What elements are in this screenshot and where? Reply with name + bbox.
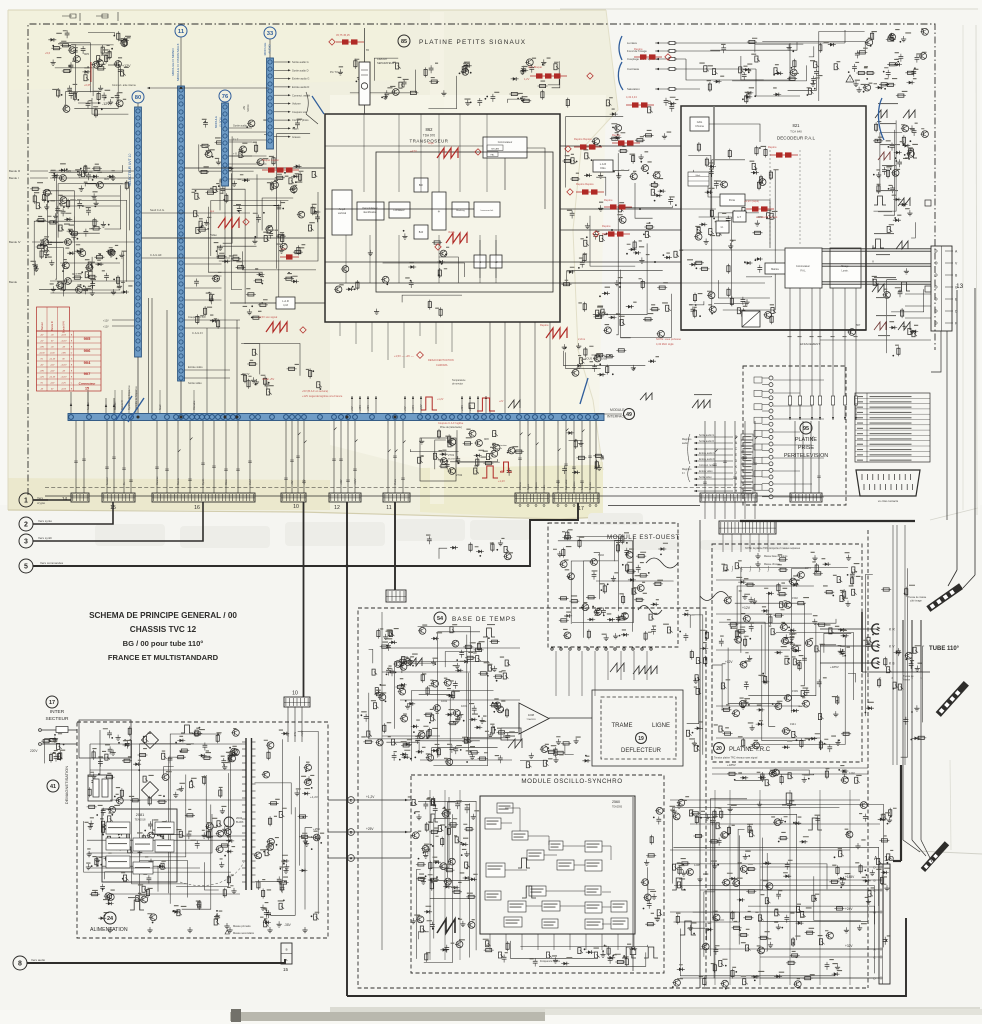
transistor 901 <box>65 239 72 246</box>
svg-text:crypto: crypto <box>37 501 46 505</box>
svg-text:Sortie audio D: Sortie audio D <box>292 68 309 72</box>
red block small left <box>280 256 299 258</box>
svg-text:NOTE: la platine TRC comporte: NOTE: la platine TRC comporte 2 masses s… <box>745 547 801 550</box>
transposeur internal block +2 <box>490 255 502 268</box>
svg-text:1208: 1208 <box>694 863 700 867</box>
blue mark near module audio <box>312 96 324 114</box>
svg-text:+0,5V: +0,5V <box>61 334 67 336</box>
base de temps transistors <box>434 705 441 712</box>
svg-text:Ligne: Ligne <box>741 566 743 572</box>
deflection yoke hatched bar bottom <box>936 681 969 717</box>
svg-text:Commut. lente: Commut. lente <box>699 464 715 467</box>
svg-text:BC158: BC158 <box>448 459 455 461</box>
svg-text:MODULE FI VISION MULT.: MODULE FI VISION MULT. <box>176 43 180 81</box>
LAR 4.43 filter box <box>276 297 295 309</box>
red chain decoder input 1 <box>574 146 602 148</box>
horizontal wire rows alimentation <box>90 743 246 745</box>
blue connector strip module 80 selecteur UVT <box>135 107 142 357</box>
svg-text:904: 904 <box>84 360 91 365</box>
trame ligne deflecteur outer box <box>592 690 683 766</box>
decoder block modulation de service <box>688 172 709 186</box>
svg-text:TDA 970: TDA 970 <box>423 134 436 138</box>
svg-text:+24V: +24V <box>412 405 415 411</box>
svg-text:SECAM: SECAM <box>491 148 499 151</box>
svg-text:+33V: +33V <box>39 346 44 348</box>
wires into output connector <box>760 866 879 868</box>
svg-text:FRANCE ET MULTISTANDARD: FRANCE ET MULTISTANDARD <box>108 653 219 662</box>
svg-text:Accord: Accord <box>87 402 90 410</box>
svg-text:+12V Légende légitime à la Fr: +12V Légende légitime à la France <box>302 394 343 398</box>
svg-text:L.A.R: L.A.R <box>282 299 289 303</box>
oscillo synchro dashed box <box>411 775 664 973</box>
svg-text:15: 15 <box>85 387 89 391</box>
svg-text:1001: 1001 <box>402 655 409 659</box>
svg-text:-38V: -38V <box>284 923 292 927</box>
connector right aux <box>790 493 822 502</box>
svg-text:+0,65: +0,65 <box>84 83 91 87</box>
wire circled 33 to strip <box>269 40 271 59</box>
svg-text:LIGNE: LIGNE <box>652 723 670 729</box>
wire transposer mid bus <box>325 261 560 263</box>
svg-text:2701: 2701 <box>448 453 455 457</box>
svg-text:Coupure C.A.F: Coupure C.A.F <box>188 315 206 319</box>
svg-text:Vers commandes: Vers commandes <box>40 561 64 565</box>
junction dots interface bar <box>137 416 140 419</box>
alimentation dashed module box <box>77 722 328 938</box>
transposer inner IC boundary <box>376 152 553 292</box>
svg-text:4,43 4,43: 4,43 4,43 <box>626 95 637 99</box>
svg-text:8: 8 <box>18 961 22 968</box>
svg-text:1502: 1502 <box>792 596 798 600</box>
wires TRC bottom verticals <box>892 525 894 765</box>
svg-text:2: 2 <box>24 522 28 529</box>
wire effacement to connector <box>820 339 931 341</box>
svg-text:Commutateur: Commutateur <box>498 141 513 144</box>
connector 17 left half <box>515 493 549 503</box>
decoder internal dashed verticals <box>769 150 771 246</box>
svg-text:Connecteur: Connecteur <box>79 382 97 386</box>
svg-text:Entrée audio G: Entrée audio G <box>292 77 309 81</box>
misc components region: below bar right cluster <box>562 431 604 474</box>
horizontal wires left area mid <box>60 195 120 197</box>
decoder block CAG chroma <box>690 117 709 131</box>
svg-text:CHASSIS TVC 12: CHASSIS TVC 12 <box>130 625 197 634</box>
connector 15 bottom <box>281 943 292 964</box>
svg-text:Trame: Trame <box>749 565 752 572</box>
tall output connector strip <box>879 864 890 984</box>
waveform left of peritel <box>640 393 652 400</box>
misc components region: circuit separateur surroundings <box>424 58 560 109</box>
wires TRC to CRT guns <box>820 628 878 630</box>
svg-text:A: A <box>873 948 875 952</box>
est-ouest parabola waveforms <box>646 558 678 568</box>
est-ouest module dashed box <box>548 523 678 647</box>
red sawtooth below <box>446 233 467 243</box>
svg-text:2002: 2002 <box>236 816 243 820</box>
connector top of base de temps <box>386 590 406 602</box>
connector 12 top <box>329 493 361 502</box>
svg-text:Repère: Repère <box>768 145 777 149</box>
red cluster right of decoder top <box>770 154 798 156</box>
svg-text:+185V: +185V <box>727 763 736 767</box>
svg-text:11: 11 <box>178 29 185 35</box>
circled 11 module number <box>175 25 187 37</box>
wire transposer lower bus <box>325 282 560 284</box>
horizontal wires tuner to selector strip <box>50 170 134 172</box>
wire opamp output to trame box <box>549 717 592 719</box>
svg-text:K B: K B <box>889 662 895 666</box>
misc components region: top-right control rows components <box>699 28 928 104</box>
svg-text:Entrée audio D: Entrée audio D <box>292 85 309 89</box>
misc components region: oscillo-synchro bottom components <box>483 939 648 967</box>
svg-text:+12V: +12V <box>103 326 109 329</box>
svg-text:Masse base de temps: Masse base de temps <box>764 555 788 558</box>
misc components region: above interface bar <box>241 344 322 396</box>
svg-text:80: 80 <box>135 95 141 101</box>
svg-text:Commutateur: Commutateur <box>796 265 810 268</box>
red chain lower decoder left <box>602 233 630 235</box>
mains input terminals <box>39 729 42 732</box>
svg-text:24: 24 <box>107 916 114 922</box>
vertical sync opamp 1008 <box>519 703 549 734</box>
svg-text:907: 907 <box>84 371 91 376</box>
junction dots on link wires <box>599 145 601 147</box>
svg-text:-24V: -24V <box>294 732 297 737</box>
svg-text:Vidéo: Vidéo <box>394 478 397 485</box>
misc components region: below TRC supply lines <box>727 765 862 786</box>
svg-text:CIRCUIT: CIRCUIT <box>377 57 388 61</box>
svg-text:MODULE FI MONO: MODULE FI MONO <box>171 48 175 76</box>
supply lines below TRC <box>712 767 868 769</box>
circled 8 vers audio <box>13 956 27 970</box>
transposeur internal block B-R <box>414 225 428 239</box>
misc components region: platine TRC components <box>714 552 861 752</box>
wire entree video row <box>185 369 231 371</box>
ground symbols row alimentation <box>109 927 111 930</box>
wire from circle 5 to connector 17 <box>33 503 578 566</box>
svg-text:L.A.R: L.A.R <box>600 162 607 166</box>
svg-text:MODULE: MODULE <box>214 116 218 128</box>
svg-text:MODULE EST-OUEST: MODULE EST-OUEST <box>607 534 680 541</box>
extra rows between strips 11 and 76 <box>185 263 222 265</box>
svg-text:+5V: +5V <box>404 406 407 411</box>
svg-text:Sortie audio G: Sortie audio G <box>292 60 309 64</box>
svg-text:TUBE 110°: TUBE 110° <box>929 646 960 652</box>
svg-text:1002: 1002 <box>441 699 448 703</box>
wire CAG HF <box>142 257 231 259</box>
circled 5 vers commandes <box>19 559 33 573</box>
svg-text:INTER: INTER <box>50 709 65 715</box>
svg-text:Sortie audio G: Sortie audio G <box>699 434 714 437</box>
svg-text:901: 901 <box>72 233 77 237</box>
svg-text:33: 33 <box>267 31 274 37</box>
svg-text:906: 906 <box>104 177 109 181</box>
misc components region: transposer internals spare <box>334 230 465 317</box>
svg-text:C.A.G FI: C.A.G FI <box>192 331 203 335</box>
scart connector drawing <box>856 470 920 496</box>
svg-text:CAG: CAG <box>697 120 703 124</box>
svg-text:Filtre: Filtre <box>600 167 606 170</box>
warning triangle top right <box>846 75 854 82</box>
svg-text:Saturation: Saturation <box>627 87 640 91</box>
svg-text:TRAME: TRAME <box>612 723 633 729</box>
svg-text:Pin TV: Pin TV <box>242 373 250 376</box>
thick vertical wire TRC to output connector <box>900 765 902 861</box>
svg-text:PRISE: PRISE <box>798 445 815 451</box>
svg-text:TDA2593: TDA2593 <box>612 806 623 809</box>
waveform pulses base de temps +30V <box>483 628 495 637</box>
wires mains to degauss <box>89 744 91 775</box>
decoder block chroma demod diagonal <box>742 311 760 327</box>
wire from circle 2 to connector 15 <box>33 502 113 524</box>
extra rows between strips 76 and 33 <box>229 131 267 133</box>
trame ligne deflecteur dashed box <box>601 697 676 759</box>
peritel connector ring strip <box>769 376 773 380</box>
misc components region: module est-ouest components <box>553 529 673 641</box>
deflection yoke hatched bar top <box>926 583 963 612</box>
svg-text:+12V: +12V <box>122 64 131 68</box>
svg-text:TDA2593: TDA2593 <box>526 718 536 721</box>
decoder block mixing luminance <box>830 248 861 288</box>
waveform cluster right margin 1 <box>875 110 887 118</box>
svg-text:1501: 1501 <box>805 566 811 570</box>
svg-text:Graves: Graves <box>292 135 301 139</box>
waveform cluster below decoder <box>692 400 710 408</box>
svg-text:4,43 MHz réglé: 4,43 MHz réglé <box>656 342 674 346</box>
wires right margin verticals from connector 13 <box>956 290 958 570</box>
wire from circle 3 to connector 16 <box>33 502 203 541</box>
svg-text:905: 905 <box>84 336 91 341</box>
misc components region: bottom-right output stage <box>670 796 897 989</box>
svg-text:AUDIO: AUDIO <box>268 44 272 54</box>
misc components region: inter secteur wiring <box>41 733 65 763</box>
svg-text:Entrée audio G: Entrée audio G <box>699 452 715 455</box>
wire strip11 to transposer video <box>185 167 326 169</box>
dash-dot outer border of platine petits signaux <box>28 24 935 495</box>
svg-text:Id.: Id. <box>721 226 724 229</box>
svg-text:DEMAGNETISATION: DEMAGNETISATION <box>64 766 69 804</box>
svg-text:FILTRE: FILTRE <box>592 353 601 357</box>
svg-text:Bande III: Bande III <box>51 321 54 331</box>
svg-text:+5V: +5V <box>291 480 294 485</box>
svg-text:Repère: Repère <box>602 224 611 228</box>
circled 2 vers synto <box>19 517 33 531</box>
svg-text:Magnéto: Magnéto <box>682 468 692 471</box>
svg-text:+32V: +32V <box>340 479 343 485</box>
svg-text:Aigus: Aigus <box>292 127 299 131</box>
circled 33 module number <box>264 27 276 39</box>
svg-text:Lumin.: Lumin. <box>842 271 849 273</box>
commutateur secam/pal block <box>483 137 527 158</box>
transposeur internal block demodulateur identification <box>357 202 384 220</box>
svg-text:Bande III: Bande III <box>9 169 20 173</box>
svg-text:NOTE: sous porteuse: NOTE: sous porteuse <box>656 337 681 341</box>
svg-text:Contraste: Contraste <box>557 479 560 490</box>
svg-text:!: ! <box>849 77 850 82</box>
red pulse in 2701 cluster <box>482 466 498 478</box>
svg-text:C.A.F: C.A.F <box>249 478 252 485</box>
svg-text:J: J <box>735 471 737 475</box>
transistor stage 905/906 top left <box>74 56 81 63</box>
pulse waveforms bottom right <box>782 793 796 805</box>
svg-text:Gamme: Gamme <box>156 476 159 485</box>
red chain upper mid right <box>530 75 567 77</box>
horizontal wire rows inside base de temps <box>382 647 520 649</box>
red chain mid decoder left <box>604 206 632 208</box>
svg-text:+8V: +8V <box>287 732 290 737</box>
IC 2560 outline <box>480 796 635 934</box>
blue connector strip module 11 FI vision <box>178 86 185 381</box>
decoder block identification <box>716 221 729 233</box>
wire sortie video row <box>185 377 231 379</box>
TRC connector rotated labels <box>722 534 724 552</box>
voltage table connecteur 15 <box>37 307 70 331</box>
svg-text:13: 13 <box>956 283 964 290</box>
long solid vertical separator x=700 <box>699 520 701 988</box>
audio outputs fanout right of strip 33 <box>274 61 288 63</box>
svg-text:+3,2V: +3,2V <box>354 478 357 485</box>
svg-text:C.A.G HF: C.A.G HF <box>150 253 162 257</box>
svg-text:G: G <box>735 477 738 481</box>
waveform cluster right margin 2 <box>878 152 890 160</box>
+12V supply label top left <box>108 64 118 66</box>
misc components region: alimentation module components <box>84 726 240 925</box>
svg-text:2560: 2560 <box>612 800 620 804</box>
waveform sawtooth near trame top <box>610 663 624 672</box>
svg-text:Sortie audio D: Sortie audio D <box>699 440 714 443</box>
connector peritel feed <box>700 493 757 502</box>
svg-text:F I T: F I T <box>233 138 239 142</box>
svg-text:Sortie audio: Sortie audio <box>233 124 247 128</box>
module 821 decodeur PAL outline <box>681 106 866 330</box>
degaussing posistor box <box>88 775 112 801</box>
vertical supply wires in bottom right <box>714 790 716 985</box>
power transistor 2002 <box>224 817 234 827</box>
misc components region: top middle upper <box>338 58 419 100</box>
IC 2560 main vertical line <box>632 797 634 947</box>
svg-text:K V: K V <box>889 645 895 649</box>
svg-text:Volume: Volume <box>519 481 522 490</box>
waveform cluster right margin 6 <box>874 322 886 330</box>
svg-text:Vidéo: Vidéo <box>448 230 455 234</box>
connector 14 <box>71 493 89 502</box>
svg-text:+5,2V: +5,2V <box>301 730 304 737</box>
verticals from transposer bottom to bar <box>489 322 491 413</box>
svg-text:Masse secondaire: Masse secondaire <box>233 931 255 935</box>
svg-text:Porte: Porte <box>729 198 736 202</box>
svg-text:Sortie vidéo: Sortie vidéo <box>699 476 712 479</box>
svg-text:Bande IV-V: Bande IV-V <box>63 321 66 333</box>
waveform sawtooth base de temps top left <box>410 658 422 666</box>
svg-text:Ligne: Ligne <box>723 566 725 572</box>
red chain left tuner area <box>262 169 299 171</box>
svg-text:Matrice: Matrice <box>771 268 780 271</box>
svg-text:TCA 640: TCA 640 <box>790 130 802 134</box>
svg-text:TEA2018: TEA2018 <box>135 818 146 822</box>
svg-text:B.+: B.+ <box>123 481 126 485</box>
verticals from strips down to interface bar <box>137 357 139 413</box>
svg-text:MULTI.: MULTI. <box>223 117 227 126</box>
svg-text:Bande I: Bande I <box>9 176 19 180</box>
svg-text:T102: T102 <box>598 553 604 557</box>
transistor 1208 output stage <box>687 869 694 876</box>
misc components region: decoder lower strip <box>689 296 776 324</box>
mains fuse <box>56 727 68 733</box>
transposer box interior light fill <box>326 115 559 321</box>
wire circled 11 to strip <box>180 38 182 87</box>
blue connector strip module 76 FI son <box>222 103 229 186</box>
horizontal wire rows inside TRC <box>716 579 800 581</box>
circled 76 module number <box>219 90 231 102</box>
svg-text:Inverseur fid.: Inverseur fid. <box>481 209 494 212</box>
svg-text:Bande I: Bande I <box>41 322 44 331</box>
svg-text:+11,5V: +11,5V <box>49 376 56 378</box>
svg-text:+12V: +12V <box>50 364 55 366</box>
svg-text:Repère: Repère <box>540 323 549 327</box>
svg-text:+0,5V: +0,5V <box>50 352 56 354</box>
svg-text:Lumière: Lumière <box>573 481 576 490</box>
svg-text:Connect. ante interne: Connect. ante interne <box>112 84 137 87</box>
svg-text:F.I: F.I <box>682 472 685 475</box>
svg-text:+1,2V: +1,2V <box>366 795 375 799</box>
svg-text:Bande: Bande <box>177 477 180 485</box>
svg-text:76: 76 <box>222 94 229 100</box>
misc components region: bottom mid between sections <box>426 535 513 560</box>
chopper transformer <box>245 738 247 890</box>
svg-text:-12V: -12V <box>102 102 110 106</box>
red sawtooth mid CAG <box>437 148 458 158</box>
svg-text:Contraste: Contraste <box>627 67 640 71</box>
top-right white sheet with faint edges <box>560 8 980 520</box>
verticals below bar to connectors <box>75 421 77 493</box>
horizontal blue interface bus bar <box>68 414 604 421</box>
svg-text:EFFACEMENT: EFFACEMENT <box>800 342 820 346</box>
thick top border of bottom-right page <box>740 520 915 522</box>
right outer dashed box bottom section <box>867 530 869 988</box>
svg-text:+33V: +33V <box>61 352 66 354</box>
svg-text:BU208: BU208 <box>236 821 244 824</box>
wire LAR input line <box>230 302 325 304</box>
svg-text:B: B <box>350 830 353 834</box>
svg-text:MODULE: MODULE <box>263 43 267 56</box>
svg-text:+33V: +33V <box>280 247 286 251</box>
TRC input connector <box>719 521 776 534</box>
misc components region: between transposer and decoder <box>562 97 684 338</box>
svg-text:85: 85 <box>401 39 407 45</box>
circled 3 vers synth <box>19 534 33 548</box>
red cluster mire couleur <box>626 104 654 106</box>
red sawtooth near table <box>266 322 287 332</box>
wire verticals inside transposer <box>363 114 365 192</box>
svg-text:vertical: vertical <box>338 211 347 215</box>
wire circle1 extension <box>33 499 71 501</box>
svg-text:+1,2V: +1,2V <box>498 479 505 483</box>
red filter chain top middle <box>336 41 364 43</box>
svg-text:17: 17 <box>49 700 55 706</box>
peritel boxed pin column <box>754 377 762 383</box>
svg-text:2,2ms: 2,2ms <box>578 337 586 341</box>
svg-text:+25V: +25V <box>313 827 320 831</box>
svg-text:+5V: +5V <box>351 406 354 411</box>
alim output connector 10 <box>284 697 310 707</box>
svg-text:+25V: +25V <box>366 827 374 831</box>
svg-text:821: 821 <box>793 123 801 128</box>
svg-text:12: 12 <box>334 505 340 511</box>
waveform sawtooth below opamp <box>508 739 522 748</box>
dashed service line below bar <box>45 487 741 489</box>
svg-text:45,9 Bloqué: 45,9 Bloqué <box>528 65 542 69</box>
svg-text:908: 908 <box>484 437 489 441</box>
